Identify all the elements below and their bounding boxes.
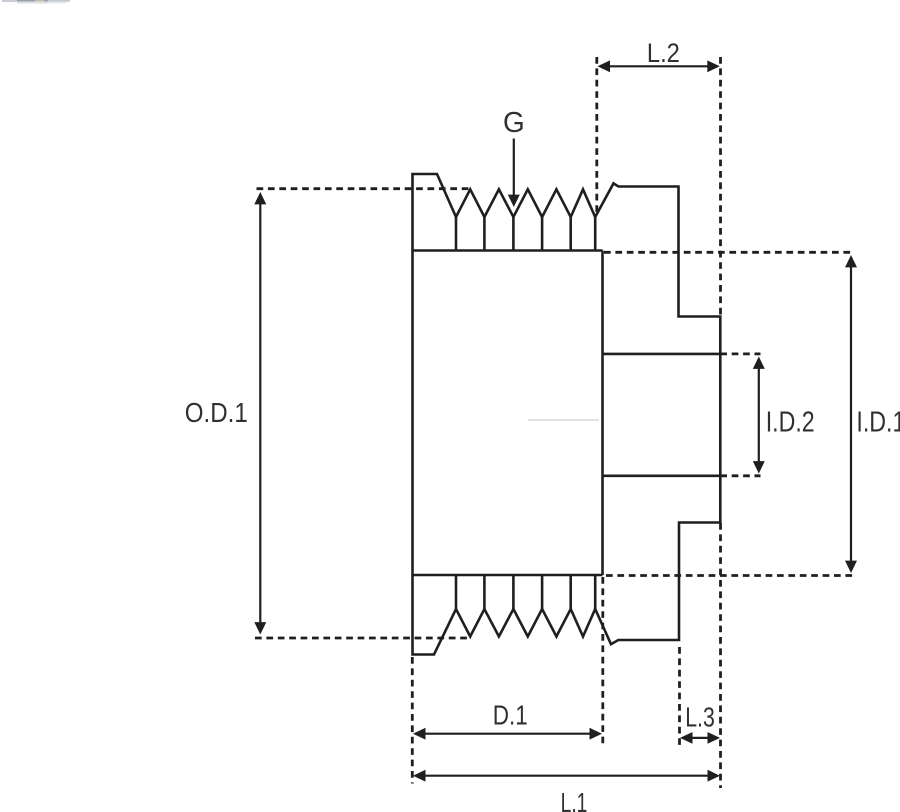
svg-text:L.1: L.1 xyxy=(561,787,588,812)
dimension I.D.1 xyxy=(604,252,900,575)
hub section rectangle xyxy=(413,251,603,576)
pulley outer outline xyxy=(413,174,721,655)
groove root lines bottom xyxy=(456,575,595,609)
svg-text:L.3: L.3 xyxy=(685,701,715,732)
groove root lines top xyxy=(456,217,595,251)
bore lines xyxy=(603,354,721,476)
svg-text:I.D.2: I.D.2 xyxy=(766,407,815,439)
dimension O.D.1 xyxy=(185,189,472,638)
dimension L.1 xyxy=(413,770,720,812)
svg-text:G: G xyxy=(503,107,525,139)
dimension L.3 xyxy=(680,523,721,788)
dimension D.1 xyxy=(412,577,603,784)
svg-text:I.D.1: I.D.1 xyxy=(856,407,900,439)
dimension I.D.2 xyxy=(720,354,814,476)
svg-text:O.D.1: O.D.1 xyxy=(185,397,248,428)
label G xyxy=(503,107,525,207)
faint centerline xyxy=(528,419,599,421)
svg-text:D.1: D.1 xyxy=(493,699,528,730)
logo strip top-left xyxy=(2,0,70,4)
dimension L.2 xyxy=(597,38,721,316)
svg-text:L.2: L.2 xyxy=(647,38,680,68)
